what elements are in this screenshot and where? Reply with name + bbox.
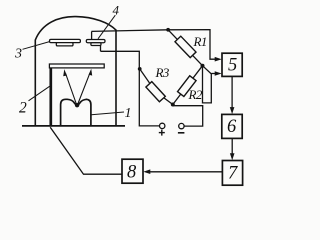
svg-text:R1: R1 bbox=[193, 34, 207, 49]
svg-text:3: 3 bbox=[14, 47, 22, 62]
svg-text:R3: R3 bbox=[155, 65, 170, 80]
svg-text:6: 6 bbox=[227, 117, 237, 137]
svg-text:7: 7 bbox=[228, 164, 238, 184]
svg-text:2: 2 bbox=[19, 100, 27, 117]
svg-text:1: 1 bbox=[125, 106, 132, 121]
svg-text:5: 5 bbox=[228, 55, 237, 75]
svg-text:4: 4 bbox=[113, 3, 120, 18]
svg-text:8: 8 bbox=[127, 163, 137, 183]
svg-text:R2: R2 bbox=[188, 87, 203, 102]
